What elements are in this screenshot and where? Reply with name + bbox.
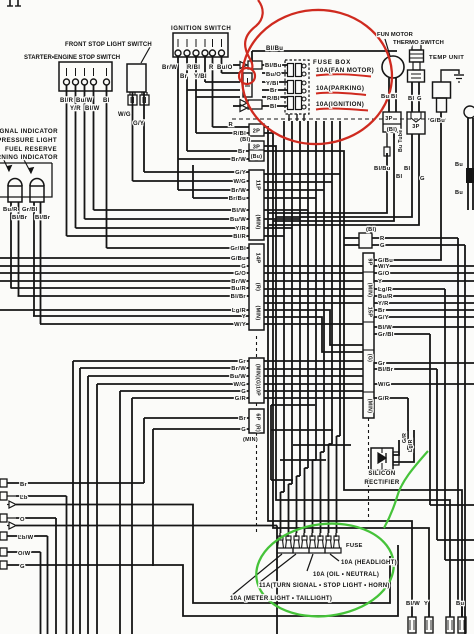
svg-text:Bu/W: Bu/W — [76, 98, 93, 104]
svg-text:Y: Y — [378, 279, 382, 285]
svg-text:THERMO SWITCH: THERMO SWITCH — [393, 40, 444, 46]
svg-text:(R): (R) — [255, 283, 261, 291]
svg-text:R: R — [209, 65, 214, 71]
svg-text:G: G — [20, 564, 25, 570]
svg-text:FUEL RESERVE: FUEL RESERVE — [5, 146, 57, 153]
svg-text:G/R: G/R — [378, 396, 390, 402]
svg-text:Y: Y — [424, 601, 428, 607]
svg-text:(Bl): (Bl) — [387, 127, 398, 133]
svg-text:FRONT STOP LIGHT SWITCH: FRONT STOP LIGHT SWITCH — [65, 42, 152, 48]
svg-text:R: R — [229, 122, 234, 128]
svg-text:Y/R: Y/R — [378, 301, 389, 307]
svg-text:Y/R: Y/R — [70, 106, 81, 112]
svg-text:Bu/O: Bu/O — [266, 72, 281, 78]
svg-text:G/Y: G/Y — [133, 121, 144, 127]
svg-text:Bl/Bu: Bl/Bu — [266, 46, 283, 52]
svg-text:O: O — [20, 517, 25, 523]
svg-text:Br/W: Br/W — [231, 188, 246, 194]
svg-text:Bl/Bu: Bl/Bu — [265, 63, 282, 69]
svg-text:3P: 3P — [385, 116, 392, 122]
svg-text:Bu/R: Bu/R — [231, 286, 246, 292]
svg-text:Bl/R: Bl/R — [233, 234, 246, 240]
svg-text:PRESSURE LIGHT: PRESSURE LIGHT — [0, 137, 57, 144]
svg-text:G/R: G/R — [235, 396, 247, 402]
svg-text:RECTIFIER: RECTIFIER — [364, 480, 400, 486]
svg-text:9P: 9P — [367, 258, 373, 265]
svg-text:Bl/Br: Bl/Br — [378, 367, 394, 373]
svg-text:Bl/Bu: Bl/Bu — [374, 166, 391, 172]
svg-text:Y/Bl: Y/Bl — [266, 81, 279, 87]
svg-text:Bu/R: Bu/R — [3, 207, 18, 213]
svg-text:15P: 15P — [367, 307, 373, 318]
svg-text:R/Bl: R/Bl — [233, 131, 246, 137]
svg-text:Gr/Bl: Gr/Bl — [22, 207, 38, 213]
svg-text:Br/W: Br/W — [162, 65, 177, 71]
svg-text:G/Y: G/Y — [378, 315, 389, 321]
svg-text:G/Bu: G/Bu — [430, 118, 445, 124]
svg-text:W/Y: W/Y — [378, 264, 390, 270]
svg-text:FUSE BOX: FUSE BOX — [313, 59, 351, 66]
svg-text:Bu: Bu — [456, 601, 464, 607]
svg-text:Bl/W: Bl/W — [378, 325, 392, 331]
svg-text:FUSE: FUSE — [346, 543, 363, 549]
svg-text:(R): (R) — [255, 424, 261, 432]
svg-text:Gr/Bl: Gr/Bl — [230, 246, 246, 252]
svg-text:G: G — [241, 427, 246, 433]
svg-text:Br: Br — [239, 416, 246, 422]
svg-text:10A(FAN MOTOR): 10A(FAN MOTOR) — [316, 67, 374, 74]
svg-text:Bl: Bl — [396, 174, 402, 180]
svg-text:R: R — [380, 236, 385, 242]
svg-text:Lb/W: Lb/W — [18, 535, 34, 541]
svg-text:W/G: W/G — [118, 112, 131, 118]
svg-text:Bl/Br: Bl/Br — [12, 215, 28, 221]
svg-text:(MIN): (MIN) — [255, 306, 261, 321]
svg-text:Br: Br — [270, 88, 277, 94]
svg-text:Bl/W: Bl/W — [406, 601, 420, 607]
svg-text:Bl/W: Bl/W — [232, 208, 246, 214]
svg-text:G/Bu: G/Bu — [231, 256, 246, 262]
svg-text:Lg/R: Lg/R — [378, 287, 393, 293]
svg-text:Bu: Bu — [455, 162, 463, 168]
svg-text:W/G: W/G — [234, 179, 247, 185]
svg-text:Bu/R: Bu/R — [378, 294, 393, 300]
svg-text:10A (METER LIGHT • TAILLIGHT): 10A (METER LIGHT • TAILLIGHT) — [230, 596, 332, 602]
svg-text:STARTER•ENGINE STOP SWITCH: STARTER•ENGINE STOP SWITCH — [24, 55, 120, 61]
svg-text:Bl: Bl — [404, 166, 410, 172]
svg-text:3P: 3P — [253, 145, 260, 151]
svg-text:G: G — [241, 264, 246, 270]
svg-text:3P: 3P — [412, 124, 419, 130]
svg-text:Gr: Gr — [239, 359, 247, 365]
svg-text:Br: Br — [378, 308, 385, 314]
svg-text:Bu/O: Bu/O — [217, 65, 233, 71]
svg-text:W/Y: W/Y — [234, 322, 246, 328]
svg-text:Br/W: Br/W — [231, 366, 246, 372]
svg-text:(MIN): (MIN) — [243, 437, 258, 443]
svg-text:Lb: Lb — [20, 495, 28, 501]
svg-text:(MIN)(G)10P: (MIN)(G)10P — [255, 364, 261, 396]
svg-text:Gr/Bl: Gr/Bl — [378, 332, 394, 338]
svg-text:11A(TURN SIGNAL • STOP LIGHT •: 11A(TURN SIGNAL • STOP LIGHT • HORN) — [259, 583, 390, 589]
svg-text:14P: 14P — [255, 253, 261, 264]
svg-text:Y/Bl: Y/Bl — [194, 74, 207, 80]
svg-text:(Bl): (Bl) — [366, 227, 377, 233]
svg-text:10A (OIL • NEUTRAL): 10A (OIL • NEUTRAL) — [313, 572, 379, 578]
svg-text:Lg/R: Lg/R — [408, 439, 414, 452]
svg-text:Bl/W: Bl/W — [85, 106, 100, 112]
svg-text:Bu/W: Bu/W — [230, 217, 246, 223]
svg-text:G: G — [241, 389, 246, 395]
svg-text:W/G: W/G — [378, 382, 391, 388]
svg-text:SIGNAL INDICATOR: SIGNAL INDICATOR — [0, 128, 58, 135]
svg-text:G: G — [417, 96, 422, 102]
svg-text:G: G — [380, 243, 385, 249]
svg-text:Bl: Bl — [270, 104, 276, 110]
svg-text:11P: 11P — [255, 180, 261, 191]
svg-text:G/Y: G/Y — [235, 170, 246, 176]
svg-text:WARNING INDICATOR: WARNING INDICATOR — [0, 154, 58, 161]
svg-text:Br: Br — [180, 74, 188, 80]
svg-text:R/Bl: R/Bl — [187, 65, 200, 71]
svg-text:IGNITION SWITCH: IGNITION SWITCH — [171, 25, 231, 32]
svg-text:Bu: Bu — [381, 94, 389, 100]
svg-text:10A (HEADLIGHT): 10A (HEADLIGHT) — [341, 560, 397, 566]
svg-text:W/G: W/G — [234, 382, 247, 388]
svg-text:FUN MOTOR: FUN MOTOR — [377, 32, 414, 38]
svg-text:2P: 2P — [253, 129, 260, 135]
svg-text:Br/W: Br/W — [231, 279, 246, 285]
svg-text:Bl: Bl — [408, 96, 414, 102]
svg-text:R/Bl: R/Bl — [267, 96, 280, 102]
svg-text:6P: 6P — [255, 413, 261, 420]
svg-text:(Bl): (Bl) — [240, 137, 251, 143]
svg-text:TEMP UNIT: TEMP UNIT — [429, 55, 464, 61]
svg-text:10A(IGNITION): 10A(IGNITION) — [316, 101, 364, 108]
svg-text:Bu: Bu — [455, 190, 463, 196]
svg-text:(G): (G) — [367, 354, 373, 362]
svg-text:(MIN): (MIN) — [367, 399, 373, 413]
svg-text:10A(PARKING): 10A(PARKING) — [316, 85, 364, 92]
svg-text:(Bu): (Bu) — [251, 154, 263, 160]
svg-text:Br: Br — [20, 482, 27, 488]
svg-text:Bl/Br: Bl/Br — [35, 215, 51, 221]
svg-text:Bl/Br: Bl/Br — [231, 294, 247, 300]
svg-text:G: G — [420, 176, 425, 182]
svg-text:G/O: G/O — [378, 271, 390, 277]
svg-text:Y: Y — [242, 314, 246, 320]
svg-text:(MIN): (MIN) — [255, 215, 261, 230]
svg-text:Bl: Bl — [391, 94, 397, 100]
svg-text:O/W: O/W — [18, 551, 31, 557]
svg-text:(MIN): (MIN) — [367, 283, 373, 297]
svg-text:Bl: Bl — [103, 98, 110, 104]
svg-text:Y/R: Y/R — [235, 226, 246, 232]
svg-text:G/O: G/O — [234, 271, 246, 277]
svg-text:Br/Bu: Br/Bu — [229, 196, 246, 202]
svg-text:Br/W: Br/W — [231, 157, 246, 163]
svg-text:Bu/W: Bu/W — [230, 374, 246, 380]
svg-text:Bl/R: Bl/R — [60, 98, 74, 104]
svg-text:SILICON: SILICON — [368, 471, 395, 477]
svg-text:Bu Tube: Bu Tube — [398, 130, 404, 152]
svg-text:Br: Br — [238, 149, 245, 155]
